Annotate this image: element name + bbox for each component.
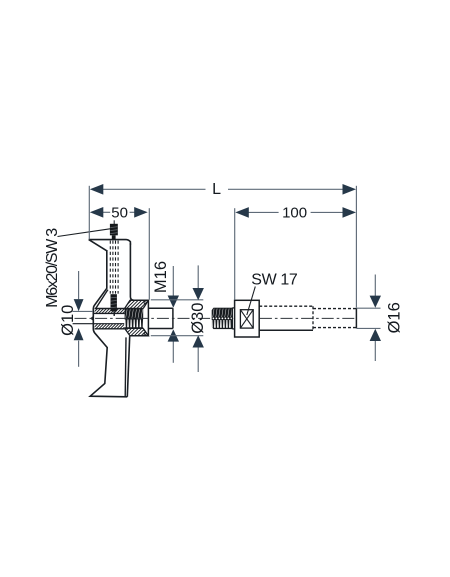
shank M16 bottom edge <box>148 328 173 330</box>
svg-text:50: 50 <box>111 205 128 222</box>
dimension D30 extension lines <box>151 299 204 301</box>
dimension D16 arrows <box>370 296 381 308</box>
screw hole hidden lines <box>109 241 111 294</box>
dimension 100 arrows <box>235 207 249 218</box>
dimension D16 extension lines <box>356 307 380 309</box>
nut upper section <box>125 300 149 308</box>
stud tip point through slot <box>90 315 94 321</box>
dimension 100 extension left <box>234 208 236 300</box>
square SW17 inner square with cross <box>240 310 253 328</box>
washer outline <box>95 308 144 310</box>
bracket right edge <box>130 244 134 301</box>
svg-text:M6x20/SW 3: M6x20/SW 3 <box>44 228 61 308</box>
nut right face <box>147 300 149 336</box>
step hidden face <box>312 306 314 330</box>
dimension L arrows <box>90 184 104 195</box>
svg-text:SW 17: SW 17 <box>251 272 298 289</box>
centerline main axis <box>75 317 358 319</box>
dimension L line <box>103 188 206 190</box>
nut bottom edge <box>130 335 148 337</box>
leader M6 label <box>58 229 111 237</box>
dimension M16 shafts <box>172 266 174 296</box>
shank M16 top edge <box>148 307 173 309</box>
screw M6 tip mark <box>113 311 115 316</box>
nut lower section <box>125 328 149 335</box>
middle cylinder top hidden edge <box>259 305 313 307</box>
svg-text:M16: M16 <box>152 261 170 293</box>
thread M16 bottom edge <box>125 327 144 329</box>
rod neck edges <box>232 307 234 309</box>
nut hatch upper <box>116 300 162 308</box>
svg-text:Ø10: Ø10 <box>59 305 77 336</box>
nut top edge <box>130 299 148 301</box>
thread M16 lower gaps <box>124 320 126 328</box>
svg-text:Ø16: Ø16 <box>386 302 404 333</box>
square SW17 block <box>235 300 260 337</box>
svg-text:Ø30: Ø30 <box>189 303 207 334</box>
screw M6x20 head thread <box>110 224 118 236</box>
shank M16 end face <box>172 308 174 328</box>
washer hatch upper <box>90 309 134 314</box>
dimension 50 line <box>101 211 110 213</box>
dimension D10 arrows <box>74 299 84 311</box>
dimension L extension left <box>88 186 90 240</box>
dimension D10 shafts <box>78 271 80 299</box>
stud cylinder bottom edge doubling as extension <box>73 323 125 325</box>
rod end face <box>355 308 357 328</box>
bracket slot inner edge <box>96 290 108 309</box>
bracket left edge with slot S-curve <box>90 250 127 397</box>
dimension D30 shafts <box>197 265 199 288</box>
dimension D30 arrows <box>193 288 204 300</box>
svg-text:100: 100 <box>282 205 307 222</box>
bracket lower arm outer edge <box>127 336 129 397</box>
thin rod hidden bottom edge <box>313 327 356 329</box>
dimension D16 shafts <box>374 275 376 297</box>
dimension D10 extension line <box>73 310 93 312</box>
bracket lower arm inner edge <box>124 337 127 396</box>
label SW17 leader <box>247 287 256 316</box>
washer hatch lower <box>90 324 134 329</box>
nut hatch lower <box>117 328 162 335</box>
screw M6x20 centerline top <box>113 220 115 224</box>
dimension M16 arrows <box>168 296 179 308</box>
dimension 50 extension right <box>148 208 150 299</box>
bracket top-left lip diagonal <box>89 240 107 251</box>
bracket top edge <box>89 240 131 245</box>
middle cylinder bottom edge <box>259 329 313 331</box>
screw M6 engaged thread <box>111 294 117 311</box>
stud cylinder top edge <box>93 312 124 314</box>
thread runout upper <box>144 301 146 307</box>
dimension 50 arrows <box>90 207 104 218</box>
dimension 100 line <box>247 211 278 213</box>
thread runout lower <box>144 330 146 336</box>
dimension L extension right <box>355 186 357 308</box>
svg-text:L: L <box>212 181 221 198</box>
thin rod hidden top edge <box>313 308 356 310</box>
thread M16 dark upper <box>125 309 144 329</box>
screw M6 neck <box>112 235 116 240</box>
